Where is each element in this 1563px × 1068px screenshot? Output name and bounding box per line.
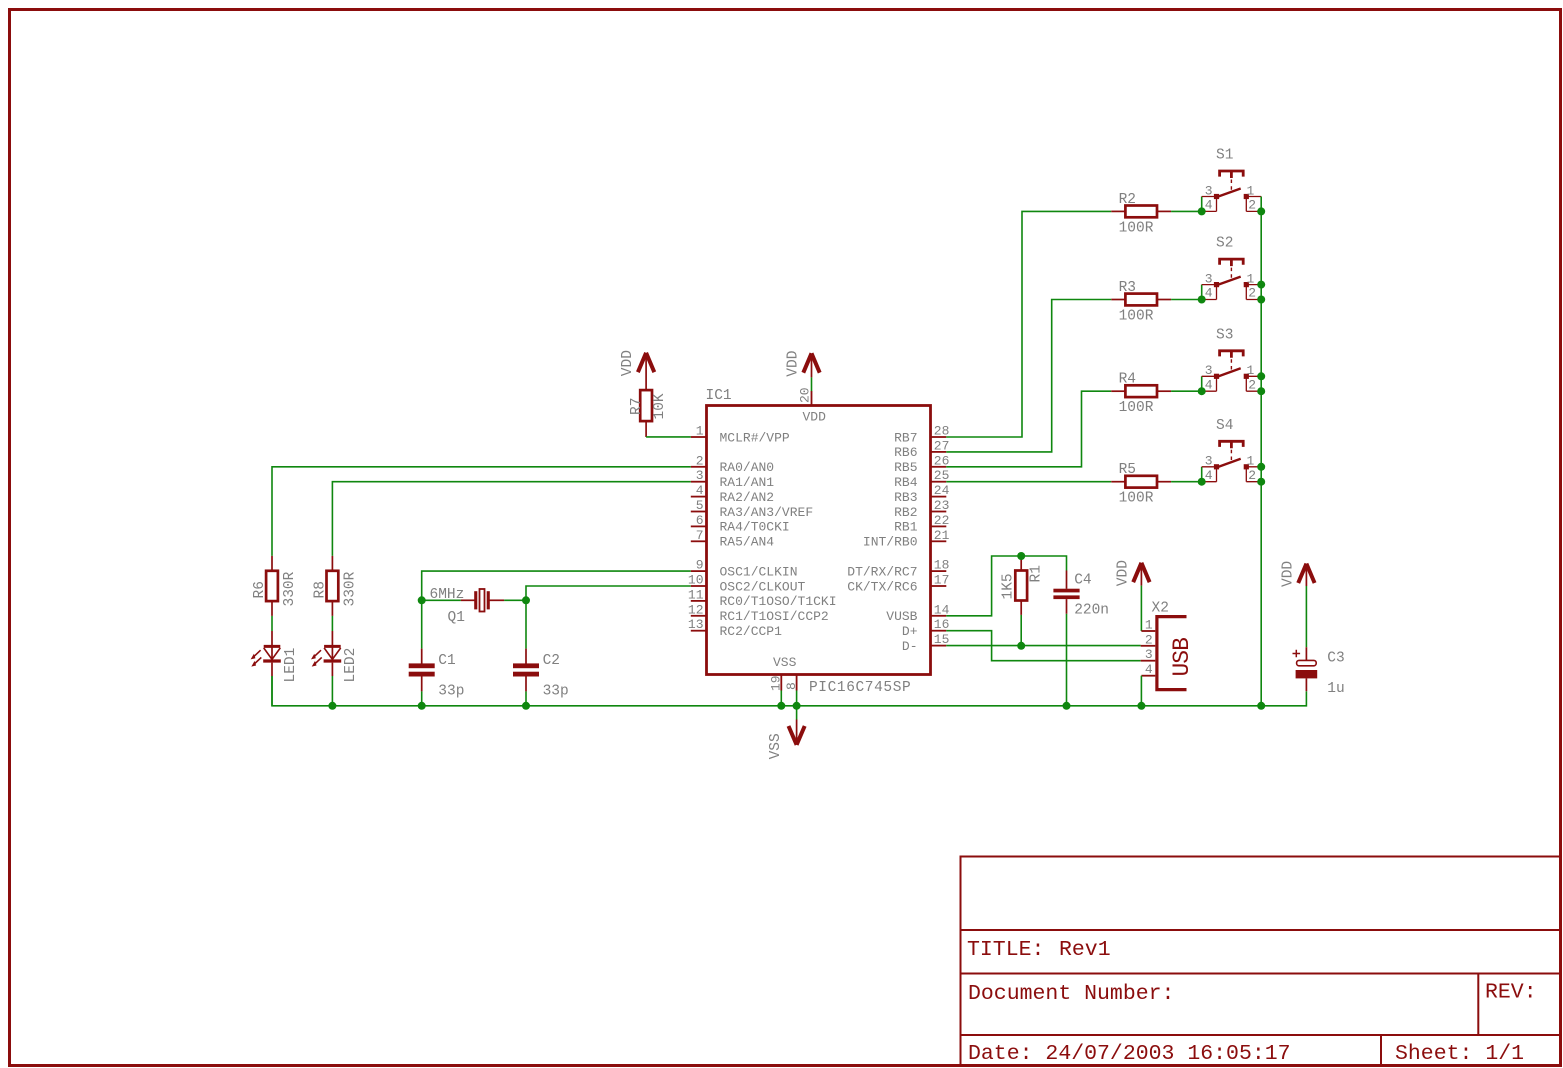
IC1 pin 3 RA1/AN1 xyxy=(691,468,775,490)
svg-text:3: 3 xyxy=(1205,272,1213,287)
power symbol VDD above IC1 pin 20 xyxy=(786,351,820,378)
wire VDD arrow to pin 20 xyxy=(811,377,813,391)
svg-text:C3: C3 xyxy=(1327,651,1344,667)
svg-text:3: 3 xyxy=(696,468,704,483)
svg-text:C1: C1 xyxy=(438,653,455,669)
svg-text:4: 4 xyxy=(1205,468,1213,483)
wire R3 to S2 xyxy=(1171,299,1202,301)
svg-text:RB1: RB1 xyxy=(894,520,918,535)
svg-text:Sheet: 1/1: Sheet: 1/1 xyxy=(1395,1042,1524,1066)
svg-text:RB5: RB5 xyxy=(894,460,917,475)
svg-text:3: 3 xyxy=(1205,363,1213,378)
svg-text:8: 8 xyxy=(784,682,799,690)
IC1 pin 2 RA0/AN0 xyxy=(691,453,774,475)
svg-text:Date: 24/07/2003 16:05:17: Date: 24/07/2003 16:05:17 xyxy=(968,1042,1291,1066)
IC1 pin 25 RB4 xyxy=(894,468,949,490)
IC1 pin 4 RA2/AN2 xyxy=(691,483,774,505)
svg-text:20: 20 xyxy=(798,387,813,403)
svg-text:2: 2 xyxy=(1248,468,1256,483)
svg-text:IC1: IC1 xyxy=(706,388,732,404)
svg-text:33p: 33p xyxy=(438,683,464,699)
svg-text:RA2/AN2: RA2/AN2 xyxy=(720,490,775,505)
junction node (781.3,705.8) xyxy=(777,702,785,710)
wire VSS drop xyxy=(796,706,798,720)
svg-text:2: 2 xyxy=(1145,632,1153,647)
LED LED2 xyxy=(311,616,359,706)
resistor R7 10K xyxy=(629,390,668,437)
svg-text:PIC16C745SP: PIC16C745SP xyxy=(809,680,911,696)
svg-text:RA0/AN0: RA0/AN0 xyxy=(720,460,775,475)
IC1 pin 19 VSS bottom xyxy=(769,675,784,692)
svg-text:2: 2 xyxy=(1248,198,1256,213)
svg-text:RB2: RB2 xyxy=(894,505,917,520)
svg-text:Q1: Q1 xyxy=(448,610,465,626)
IC1 pin 22 RB1 xyxy=(894,513,949,535)
svg-text:1K5: 1K5 xyxy=(1001,573,1017,599)
wire C1 top xyxy=(421,600,423,648)
svg-text:CK/TX/RC6: CK/TX/RC6 xyxy=(847,579,917,594)
svg-text:R8: R8 xyxy=(312,581,328,598)
svg-text:17: 17 xyxy=(934,573,950,588)
svg-text:100R: 100R xyxy=(1119,308,1154,324)
svg-text:33p: 33p xyxy=(543,683,569,699)
resistor R4 100R xyxy=(1111,372,1171,417)
svg-text:Rev1: Rev1 xyxy=(1059,938,1111,962)
svg-text:Document Number:: Document Number: xyxy=(968,982,1174,1006)
wire IC1 pin2 RA0 to R6 xyxy=(272,467,691,556)
svg-text:TITLE:: TITLE: xyxy=(967,938,1044,962)
junction node (421.7,600.3) xyxy=(418,596,426,604)
junction node (1261.2,284.6) xyxy=(1257,281,1265,289)
svg-text:R3: R3 xyxy=(1119,280,1136,296)
wire crystal right xyxy=(504,599,526,601)
wire VUSB net pin14 to R1/C4 xyxy=(946,556,1066,616)
svg-text:OSC1/CLKIN: OSC1/CLKIN xyxy=(720,564,798,579)
IC1 pin 17 CK/TX/RC6 xyxy=(847,573,949,595)
svg-text:S2: S2 xyxy=(1216,236,1233,252)
svg-text:LED1: LED1 xyxy=(283,648,299,683)
wire D+ net pin16 to X2 pin3 xyxy=(946,631,1140,661)
title block text REV: xyxy=(1485,981,1537,1005)
svg-text:LED2: LED2 xyxy=(343,648,359,683)
IC1 pin 9 OSC1/CLKIN xyxy=(691,558,798,580)
svg-text:19: 19 xyxy=(769,675,784,691)
wire R4 to S3 xyxy=(1171,390,1202,392)
svg-text:1: 1 xyxy=(1247,363,1255,378)
svg-text:R2: R2 xyxy=(1119,192,1136,208)
junction node (1261.2,376.3) xyxy=(1257,372,1265,380)
X2 pin 2 xyxy=(1141,632,1156,647)
wire X2 pin4 to bus xyxy=(1140,676,1142,706)
svg-text:7: 7 xyxy=(696,528,704,543)
resistor R8 330R xyxy=(312,556,358,616)
svg-text:RB4: RB4 xyxy=(894,475,918,490)
svg-text:1: 1 xyxy=(1247,183,1255,198)
svg-text:RC2/CCP1: RC2/CCP1 xyxy=(720,624,783,639)
title block text TITLE: Rev1 xyxy=(967,938,1111,962)
crystal Q1 6MHz xyxy=(430,587,505,626)
junction node (1261.2,466.8) xyxy=(1257,463,1265,471)
wire R1 bottom to D- xyxy=(1020,615,1022,646)
svg-text:18: 18 xyxy=(934,558,950,573)
svg-text:D+: D+ xyxy=(902,624,918,639)
switch S4 xyxy=(1202,418,1262,483)
svg-text:23: 23 xyxy=(934,498,950,513)
IC1 pin 16 D+ xyxy=(902,617,950,639)
svg-text:S1: S1 xyxy=(1216,148,1233,164)
capacitor C4 220n xyxy=(1053,571,1109,619)
svg-text:4: 4 xyxy=(1205,377,1213,392)
wire C2 top xyxy=(525,600,527,648)
switch S2 xyxy=(1202,236,1262,301)
svg-text:100R: 100R xyxy=(1119,491,1154,507)
IC1 pin 14 VUSB xyxy=(886,602,949,624)
IC1 pin 5 RA3/AN3/VREF xyxy=(691,498,813,520)
wire ground bus xyxy=(272,676,1306,706)
junction node (332.4,705.8) xyxy=(328,702,336,710)
wire C4 bottom to bus xyxy=(1066,614,1068,706)
svg-text:10K: 10K xyxy=(652,393,668,419)
wire IC1 to R5 xyxy=(946,481,1111,483)
svg-text:S3: S3 xyxy=(1216,327,1233,343)
svg-text:1: 1 xyxy=(696,424,704,439)
svg-text:R4: R4 xyxy=(1119,372,1136,388)
IC1 pin 23 RB2 xyxy=(894,498,949,520)
svg-text:VDD: VDD xyxy=(1116,560,1132,586)
title block lines xyxy=(961,857,1561,1066)
svg-text:4: 4 xyxy=(1205,286,1213,301)
IC1 pin 27 RB6 xyxy=(894,438,949,460)
switch S1 xyxy=(1202,148,1262,213)
wire VDD to X2 pin1 xyxy=(1140,586,1142,631)
power symbol VDD above X2 xyxy=(1116,560,1150,586)
title block text Sheet xyxy=(1395,1042,1524,1066)
junction node (526,600.3) xyxy=(522,596,530,604)
svg-text:USB: USB xyxy=(1169,638,1195,677)
wire IC1 pin3 RA1 to R8 xyxy=(332,482,690,556)
svg-text:100R: 100R xyxy=(1119,400,1154,416)
title block text Date xyxy=(968,1042,1291,1066)
IC1 pin 11 RC0/T1OSO/T1CKI xyxy=(688,587,837,609)
wire R7 to IC1 pin1 xyxy=(646,436,691,438)
svg-text:100R: 100R xyxy=(1119,220,1154,236)
wire IC1 pin8 to bus xyxy=(796,691,798,706)
resistor R1 1K5 xyxy=(1001,556,1045,615)
svg-text:R7: R7 xyxy=(629,398,645,415)
svg-text:R5: R5 xyxy=(1119,462,1136,478)
svg-text:RA1/AN1: RA1/AN1 xyxy=(720,475,775,490)
wire switch bus right side xyxy=(1260,197,1262,706)
svg-text:11: 11 xyxy=(688,587,704,602)
svg-text:1: 1 xyxy=(1247,272,1255,287)
svg-text:MCLR#/VPP: MCLR#/VPP xyxy=(720,430,790,445)
svg-text:2: 2 xyxy=(1248,286,1256,301)
svg-text:RC1/T1OSI/CCP2: RC1/T1OSI/CCP2 xyxy=(720,609,829,624)
svg-text:R6: R6 xyxy=(252,581,268,598)
svg-text:RB7: RB7 xyxy=(894,430,917,445)
junction node (1201.7,211.4) xyxy=(1198,207,1206,215)
LED LED1 xyxy=(251,616,299,706)
IC1 pin 13 RC2/CCP1 xyxy=(688,617,782,639)
ground symbol VSS xyxy=(768,720,805,760)
IC1 pin 8 VSS bottom xyxy=(784,675,799,691)
svg-text:C2: C2 xyxy=(543,653,560,669)
svg-text:S4: S4 xyxy=(1216,418,1233,434)
IC1 pin 6 RA4/T0CKI xyxy=(691,513,790,535)
junction node (1141.4,705.8) xyxy=(1137,702,1145,710)
wire crystal left xyxy=(422,599,461,601)
svg-text:9: 9 xyxy=(696,558,704,573)
svg-text:21: 21 xyxy=(934,528,950,543)
svg-text:RB6: RB6 xyxy=(894,445,917,460)
connector X2 USB xyxy=(1152,601,1196,690)
wire IC1 pin19 to bus xyxy=(780,691,782,706)
power symbol VDD above R7 xyxy=(620,350,654,390)
junction node (1261.2,211.4) xyxy=(1257,207,1265,215)
svg-text:3: 3 xyxy=(1205,454,1213,469)
wire C2 bottom xyxy=(525,691,527,705)
X2 pin 4 xyxy=(1141,662,1155,677)
wire IC1 to R2 xyxy=(946,211,1111,437)
X2 pin 1 xyxy=(1141,618,1155,633)
wire IC1 to R3 xyxy=(946,300,1111,452)
junction node (1021.2,556) xyxy=(1017,552,1025,560)
svg-text:D-: D- xyxy=(902,639,918,654)
IC1 pin 20 VDD top xyxy=(798,387,813,405)
svg-text:VDD: VDD xyxy=(786,351,802,377)
svg-text:4: 4 xyxy=(1205,198,1213,213)
IC1 pin 15 D- xyxy=(902,632,950,654)
svg-text:1: 1 xyxy=(1145,618,1153,633)
IC1 pin 10 OSC2/CLKOUT xyxy=(688,573,806,595)
X2 pin 3 xyxy=(1141,647,1156,662)
svg-text:RA3/AN3/VREF: RA3/AN3/VREF xyxy=(720,505,814,520)
title block text Document Number: xyxy=(968,982,1174,1006)
IC1 pin 7 RA5/AN4 xyxy=(691,528,775,550)
IC1 pin 18 DT/RX/RC7 xyxy=(847,558,949,580)
wire R2 to S1 xyxy=(1171,210,1202,212)
svg-text:5: 5 xyxy=(696,498,704,513)
svg-text:X2: X2 xyxy=(1152,601,1169,617)
junction node (796.6,705.8) xyxy=(793,702,801,710)
svg-text:1: 1 xyxy=(1247,454,1255,469)
wire IC1 to R4 xyxy=(946,391,1111,467)
IC1 pin 26 RB5 xyxy=(894,453,949,475)
wire C1 bottom xyxy=(421,691,423,705)
IC1 pin 1 MCLR#/VPP xyxy=(691,424,790,446)
svg-text:24: 24 xyxy=(934,483,950,498)
svg-text:OSC2/CLKOUT: OSC2/CLKOUT xyxy=(720,579,806,594)
switch S3 xyxy=(1202,327,1262,392)
junction node (1261.2,299.5) xyxy=(1257,296,1265,304)
resistor R6 330R xyxy=(252,556,298,616)
svg-text:220n: 220n xyxy=(1074,603,1109,619)
power symbol VDD above C3 xyxy=(1281,561,1315,587)
svg-text:INT/RB0: INT/RB0 xyxy=(863,535,918,550)
svg-text:VDD: VDD xyxy=(1281,561,1297,587)
svg-text:2: 2 xyxy=(1248,377,1256,392)
svg-text:2: 2 xyxy=(696,453,704,468)
svg-text:RA4/T0CKI: RA4/T0CKI xyxy=(720,520,790,535)
svg-text:330R: 330R xyxy=(342,571,358,606)
wire IC1 pin10 OSC2 to crystal xyxy=(526,586,691,600)
wire R5 to S4 xyxy=(1171,481,1202,483)
svg-text:RC0/T1OSO/T1CKI: RC0/T1OSO/T1CKI xyxy=(720,594,837,609)
svg-text:330R: 330R xyxy=(282,571,298,606)
svg-text:R1: R1 xyxy=(1029,565,1045,582)
svg-text:4: 4 xyxy=(1145,662,1153,677)
svg-text:VSS: VSS xyxy=(773,655,797,670)
junction node (526,705.8) xyxy=(522,702,530,710)
junction node (421.7,705.8) xyxy=(418,702,426,710)
svg-text:VSS: VSS xyxy=(768,733,784,759)
svg-text:22: 22 xyxy=(934,513,950,528)
svg-text:3: 3 xyxy=(1145,647,1153,662)
svg-text:1u: 1u xyxy=(1327,681,1344,697)
wire D- net pin15 to X2 pin2 xyxy=(946,645,1140,647)
junction node (1261.2,481.7) xyxy=(1257,478,1265,486)
svg-text:RB3: RB3 xyxy=(894,490,917,505)
svg-text:4: 4 xyxy=(696,483,704,498)
svg-text:6MHz: 6MHz xyxy=(430,587,465,603)
junction node (1021.2,645.8) xyxy=(1017,642,1025,650)
capacitor C2 33p xyxy=(513,649,569,700)
junction node (1261.2,391.2) xyxy=(1257,387,1265,395)
capacitor C1 33p xyxy=(409,649,465,700)
svg-text:13: 13 xyxy=(688,617,704,632)
resistor R2 100R xyxy=(1111,192,1171,237)
svg-text:VUSB: VUSB xyxy=(886,609,917,624)
svg-text:C4: C4 xyxy=(1074,573,1091,589)
IC1 pin 28 RB7 xyxy=(894,424,949,446)
svg-text:REV:: REV: xyxy=(1485,981,1537,1005)
junction node (1201.7,481.7) xyxy=(1198,478,1206,486)
resistor R3 100R xyxy=(1111,280,1171,325)
svg-text:3: 3 xyxy=(1205,183,1213,198)
junction node (1201.7,391.2) xyxy=(1198,387,1206,395)
svg-text:DT/RX/RC7: DT/RX/RC7 xyxy=(847,564,917,579)
IC1 pin 24 RB3 xyxy=(894,483,950,505)
junction node (1261.2,705.8) xyxy=(1257,702,1265,710)
svg-text:VDD: VDD xyxy=(803,409,827,424)
junction node (1201.7,299.5) xyxy=(1198,296,1206,304)
wire IC1 pin9 OSC1 to crystal xyxy=(422,571,691,600)
capacitor C3 1u polarized xyxy=(1293,647,1345,697)
wire VDD to C3 xyxy=(1305,586,1307,647)
svg-text:VDD: VDD xyxy=(620,350,636,376)
svg-text:12: 12 xyxy=(688,602,704,617)
svg-text:6: 6 xyxy=(696,513,704,528)
junction node (1066.5,705.8) xyxy=(1063,702,1071,710)
svg-text:RA5/AN4: RA5/AN4 xyxy=(720,535,775,550)
resistor R5 100R xyxy=(1111,462,1171,507)
IC1 pin 21 INT/RB0 xyxy=(863,528,950,550)
op-amp/IC IC1 box PIC16C745SP xyxy=(706,388,931,696)
IC1 pin 12 RC1/T1OSI/CCP2 xyxy=(688,602,829,624)
